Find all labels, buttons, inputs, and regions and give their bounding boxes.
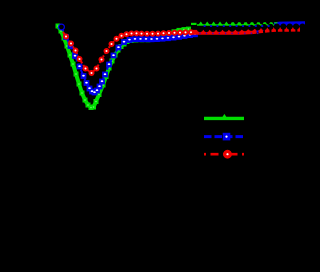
data punch circles [197, 26, 203, 32]
legend blue entry [204, 135, 244, 138]
green dash before plateau [191, 23, 197, 25]
red plateau band solid part [191, 29, 252, 34]
red circle markers with white dots [63, 34, 69, 40]
red plateau band dashed tail [252, 29, 300, 32]
green triangle markers [198, 22, 274, 26]
legend red entry [204, 153, 244, 156]
blue square markers with white dots [63, 34, 69, 40]
blue tick bits inside red row [199, 33, 200, 35]
blue dots between triangles [203, 25, 205, 27]
green end dash [274, 22, 277, 23]
blue tail under red row [196, 23, 303, 33]
green model curve [58, 26, 189, 108]
blue right band [274, 21, 305, 26]
red dash-dot curve [63, 32, 191, 73]
first data open circle [59, 24, 65, 30]
legend green entry [204, 117, 244, 120]
blue dashed curve [62, 27, 196, 93]
green plateau baseline [197, 24, 278, 26]
